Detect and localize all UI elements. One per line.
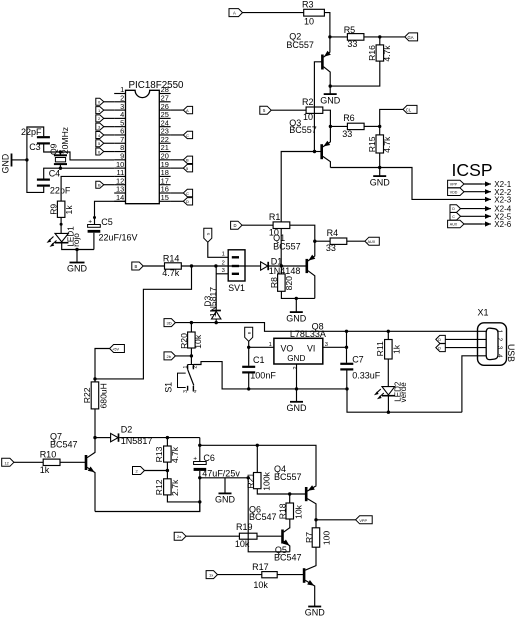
node D3 anode (215, 321, 218, 324)
node LED2 ground (387, 411, 390, 414)
resistor R16 (4.7k) (367, 37, 392, 62)
wire Q3 base left and down to R1 (281, 152, 322, 222)
wire node to R6 (330, 125, 347, 127)
wire R7 bottom to Q5 collector (305, 547, 316, 570)
connector X1 USB (478, 307, 516, 365)
PIC pin 6 stub (114, 127, 125, 136)
capacitor C3 22pF (21, 127, 50, 152)
PIC pin 4 stub (114, 110, 125, 119)
wire R2 to Q3 emitter node (323, 110, 331, 126)
svg-text:USB: USB (506, 344, 516, 362)
ground below R8 (286, 298, 307, 323)
svg-text:BC557: BC557 (273, 241, 301, 251)
PIC pin 18 stub (159, 168, 170, 177)
svg-text:X2-3: X2-3 (494, 196, 511, 205)
PIC pin 13 stub (114, 185, 125, 194)
connector B (R14 input) (132, 262, 143, 270)
svg-text:D: D (438, 346, 441, 350)
svg-text:R16: R16 (367, 45, 377, 61)
svg-text:VPP: VPP (450, 183, 458, 187)
node D3 branch (214, 264, 217, 267)
svg-text:GA: GA (408, 35, 414, 40)
svg-text:33: 33 (326, 243, 336, 253)
svg-text:D: D (452, 207, 455, 211)
svg-text:R2: R2 (302, 97, 314, 107)
svg-text:A: A (186, 108, 189, 113)
resistor R20 (10k) (179, 323, 203, 349)
ICSP pin X2-1 (448, 180, 512, 189)
svg-text:2.7k: 2.7k (170, 479, 180, 496)
svg-text:SV1: SV1 (228, 283, 245, 293)
svg-text:12: 12 (5, 461, 9, 465)
diode D2 1N5817 (95, 424, 152, 445)
svg-text:10: 10 (303, 112, 313, 122)
PIC pin 10 stub (114, 160, 125, 169)
wire ground branch (200, 477, 248, 479)
svg-text:R11: R11 (375, 341, 385, 356)
wire R9 to LED1 (60, 217, 63, 233)
svg-text:C: C (186, 191, 189, 196)
resistor R13 (4.7k) (154, 438, 180, 464)
PIC pin 15 stub (159, 193, 170, 202)
svg-text:22pF: 22pF (50, 186, 71, 196)
wire to R10 (14, 461, 43, 463)
PIC pin 1 stub (114, 85, 125, 94)
ground left of crystal (0, 154, 27, 174)
resistor R10 (1k) (40, 449, 60, 475)
svg-text:3: 3 (183, 390, 189, 393)
wire C5 bottom to LED1 ground line (93, 233, 95, 250)
svg-text:R20: R20 (179, 333, 189, 349)
crystal Q9 20MHz (49, 127, 70, 168)
connector at PIC pin 7 (96, 140, 114, 147)
resistor R4 (33) (326, 228, 347, 253)
wire C1 bottom to ground line (248, 374, 250, 389)
wire R1 bottom stub to Q1 base node (280, 229, 282, 267)
svg-text:4: 4 (192, 390, 198, 393)
PIC pin 16 stub (159, 185, 170, 194)
node GND rail (25, 158, 28, 161)
inductor R22 680uH (82, 379, 109, 409)
svg-text:ICSP: ICSP (452, 160, 493, 180)
wire R22 bottom to D2 node (94, 409, 96, 438)
connector at PIC pin 19 (171, 164, 193, 171)
svg-text:VI: VI (307, 343, 315, 353)
connector at PIC pin 16 (171, 189, 193, 196)
svg-text:4.7k: 4.7k (162, 268, 180, 278)
LED D LED1 rojo (48, 226, 81, 247)
svg-text:1: 1 (183, 365, 189, 368)
svg-text:4: 4 (496, 354, 503, 358)
svg-text:1k: 1k (64, 205, 74, 215)
svg-text:R4: R4 (327, 228, 339, 238)
voltage regulator Q8 L78L33A (269, 321, 328, 369)
resistor R15 (4.7k) (367, 126, 392, 153)
resistor R18 (10k) (278, 494, 304, 519)
svg-text:CL: CL (406, 107, 412, 112)
wire to Q4 emitter (200, 445, 316, 485)
wire R11 to LED2 (387, 359, 389, 387)
wire node down to +5V rail chain (95, 266, 192, 379)
wire C7 bottom to grounds (346, 371, 348, 389)
wire VI node up to +5V rail (346, 331, 348, 347)
svg-text:R14: R14 (163, 253, 180, 263)
connector at PIC pin 2 (96, 98, 114, 105)
diode D3 1N5817 (202, 287, 221, 323)
svg-text:1k: 1k (391, 344, 401, 354)
wire R4 to AUX (347, 240, 365, 242)
resistor R17 (10k) (252, 562, 277, 590)
wire S1 pin2 to ground line (193, 362, 249, 389)
svg-text:1: 1 (496, 330, 503, 334)
connector GA (405, 33, 418, 41)
wire node to R5 (330, 36, 348, 38)
node pin2 ground line (295, 387, 298, 390)
connector VPP (356, 516, 373, 524)
connector at PIC pin 5 (96, 123, 114, 130)
wire input to R3 (243, 12, 304, 14)
wire D1 to Q1 base (269, 265, 307, 267)
svg-text:R6: R6 (343, 113, 355, 123)
svg-text:1N5817: 1N5817 (208, 287, 218, 317)
PIC pin 9 stub (114, 152, 125, 161)
node C1 ground (247, 387, 250, 390)
connector 1 (Q7 base input) (2, 458, 14, 466)
svg-text:14: 14 (116, 193, 124, 202)
ICSP pin X2-2 (448, 188, 512, 197)
node R20 bottom (190, 354, 193, 357)
svg-text:10: 10 (304, 17, 314, 27)
wire pin14 to C5 (93, 201, 126, 224)
resistor R19 (10k) (235, 522, 257, 549)
connector at PIC pin 12 (96, 181, 114, 188)
wire ground rail (C3 top to C4 bottom) (27, 127, 44, 192)
svg-text:100nF: 100nF (250, 371, 276, 381)
transistor Q3 BC557 (289, 118, 330, 168)
svg-text:C3: C3 (29, 142, 41, 152)
node R2/R6/Q3 emitter (329, 125, 332, 128)
wire SV1 pin 3 lead (216, 273, 228, 275)
svg-text:S1: S1 (163, 382, 173, 393)
svg-text:10k: 10k (193, 334, 203, 349)
PIC pin 5 stub (114, 118, 125, 127)
svg-text:B: B (247, 331, 252, 334)
PIC pin 19 stub (159, 160, 170, 169)
PIC pin 28 stub (159, 85, 170, 94)
svg-text:4.7k: 4.7k (170, 446, 180, 463)
node R13 top (166, 436, 169, 439)
PIC pin 22 stub (159, 135, 170, 144)
svg-text:R19: R19 (236, 522, 253, 532)
connector D- (436, 335, 446, 343)
wire R10 to Q7 base (60, 461, 86, 463)
svg-text:verde: verde (399, 382, 408, 403)
svg-text:R9: R9 (48, 204, 58, 215)
svg-text:C1: C1 (253, 355, 265, 365)
node R11 top (387, 330, 390, 333)
wire D+ to USB pin3 (445, 347, 486, 349)
resistor R9 (1k) (48, 201, 74, 217)
transistor Q1 BC557 (273, 233, 315, 298)
svg-text:20MHz: 20MHz (60, 127, 70, 154)
svg-text:3: 3 (496, 346, 503, 350)
svg-text:33: 33 (347, 39, 357, 49)
svg-text:A: A (233, 11, 236, 16)
svg-text:10k: 10k (235, 539, 250, 549)
connector at PIC pin 4 (96, 115, 114, 122)
PIC pin 23 stub (159, 127, 170, 136)
svg-text:2: 2 (496, 338, 503, 342)
node R22 top (93, 377, 96, 380)
svg-text:10k: 10k (294, 504, 304, 519)
svg-text:rojo: rojo (72, 233, 81, 247)
wire R3 to node (324, 13, 330, 37)
resistor R8 (820) (269, 266, 294, 291)
svg-text:10k: 10k (253, 580, 268, 590)
svg-text:R7: R7 (304, 532, 314, 543)
wire node to CL connector (380, 109, 403, 126)
svg-text:GND: GND (320, 95, 341, 105)
ground below Q5 (305, 607, 326, 618)
wire node to R4 (315, 240, 330, 242)
node VI (345, 346, 348, 349)
wire to R17 (218, 574, 262, 576)
svg-text:R17: R17 (252, 562, 269, 572)
wire R8 bottom to Q1 collector (281, 291, 314, 298)
svg-text:2x: 2x (177, 534, 181, 539)
svg-text:22pF: 22pF (21, 127, 42, 137)
svg-text:1k: 1k (40, 465, 50, 475)
transistor Q4 BC557 (274, 464, 316, 520)
svg-text:BC557: BC557 (286, 40, 314, 50)
wire R6 to node (364, 125, 380, 127)
wire LED2 to ground return (387, 396, 389, 413)
connector at PIC pin 6 (96, 131, 114, 138)
svg-text:GND: GND (287, 403, 308, 413)
svg-text:AUX: AUX (450, 223, 458, 227)
wire node to VPP connector (316, 519, 356, 521)
node R6/R15/CL (378, 125, 381, 128)
connector 5 (260, 106, 271, 114)
node R14 output (190, 264, 193, 267)
svg-text:GND: GND (286, 313, 307, 323)
ground below regulator (287, 402, 308, 413)
ICSP pin X2-3 (482, 196, 512, 205)
connector at PIC pin 3 (96, 107, 114, 114)
svg-text:100: 100 (322, 531, 332, 546)
wire Q2 base down through R2 to Q3 base (314, 62, 322, 152)
node crystal bottom (59, 167, 62, 170)
wire C4 top / crystal bottom to pin10 (44, 168, 115, 178)
connector 2x (R19 input) (174, 532, 186, 540)
node rail/VI (345, 330, 348, 333)
svg-text:22uF/16V: 22uF/16V (99, 233, 138, 243)
resistor R12 (2.7k) (154, 479, 180, 496)
wire to R1 (242, 224, 273, 226)
svg-text:X2-6: X2-6 (494, 220, 511, 229)
node R15/ICSP rail (378, 166, 381, 169)
connector 2 (divider tap) (133, 467, 145, 475)
resistor R1 (10) (269, 212, 290, 237)
svg-text:1: 1 (222, 252, 225, 258)
svg-text:R5: R5 (344, 25, 356, 35)
svg-text:R15: R15 (367, 136, 377, 152)
PIC pin 25 stub (159, 110, 170, 119)
LED D LED2 verde (375, 381, 408, 402)
PIC pin 17 stub (159, 176, 170, 185)
svg-text:BC547: BC547 (249, 512, 277, 522)
capacitor C5 22uF/16V (88, 217, 138, 242)
resistor R11 (1k) (375, 331, 401, 359)
wire R18 bottom to Q6 collector (289, 519, 291, 528)
node C6 top / R21 feed (198, 444, 201, 447)
wire regulator pin2 to ground (296, 364, 298, 402)
wire connector to SV1 pin 1 (208, 242, 228, 257)
svg-text:2: 2 (293, 366, 299, 369)
connector at PIC pin 26 (171, 106, 193, 113)
ground below R15 (370, 168, 391, 188)
svg-text:D: D (186, 199, 189, 204)
svg-text:L78L33A: L78L33A (290, 329, 326, 339)
svg-text:R10: R10 (40, 449, 57, 459)
diode D1 1N4148 (261, 257, 301, 276)
wire R1 to R4/Q1 emitter (290, 225, 315, 241)
node pin1/C1 (247, 346, 250, 349)
ICSP pin X2-5 (450, 212, 512, 221)
PIC pin 20 stub (159, 152, 170, 161)
wire R21 bottom to Q4 base (257, 489, 306, 494)
svg-text:D: D (234, 223, 237, 228)
transistor Q7 BC547 (50, 431, 95, 511)
resistor R6 (33) (342, 113, 364, 139)
svg-text:D2: D2 (121, 424, 133, 434)
node Q3 base / R2 feed (313, 150, 316, 153)
node Q2 collector / R16 / GND (329, 84, 332, 87)
node C6/ground branch (198, 476, 201, 479)
svg-text:15: 15 (161, 193, 169, 202)
connector D (R1 input) (231, 221, 242, 229)
svg-text:2b: 2b (167, 354, 172, 359)
svg-text:VDD: VDD (450, 190, 458, 194)
node R13/R12 divider (166, 462, 169, 479)
connector 1x (R17 input) (206, 571, 217, 579)
node C6/R12/Q7 (198, 500, 201, 503)
wire USB pin4 to ground return (462, 356, 486, 412)
connector D5 (rail left) (164, 319, 175, 327)
wire connector to R2 (271, 109, 306, 111)
node R22/D2/Q7 collector (93, 436, 96, 439)
ICSP pin X2-4 (450, 205, 512, 214)
wire down to USB ground return (347, 389, 462, 412)
node R3/R5/Q2 emitter (328, 35, 331, 38)
wire R15 bottom to ground rail (379, 153, 381, 168)
ground below Q2 (320, 86, 341, 105)
svg-text:R13: R13 (154, 446, 164, 462)
svg-text:AUX: AUX (368, 240, 376, 244)
node R8/ground (295, 297, 298, 300)
resistor R3 (10) (302, 0, 324, 27)
wire regulator pin3 (323, 346, 347, 348)
svg-text:33: 33 (342, 129, 352, 139)
wire connector to divider (145, 470, 168, 472)
svg-text:C: C (452, 215, 455, 219)
connector B vertical (SV1 pin1) (204, 228, 212, 242)
connector A (top input) (229, 9, 243, 17)
connector AUX (365, 237, 379, 245)
svg-text:10: 10 (269, 228, 279, 238)
svg-text:C5: C5 (101, 217, 113, 227)
resistor R14 (4.7k) (162, 253, 181, 278)
ground below LED1 (67, 250, 88, 274)
wire +5V to R22 top (95, 349, 110, 379)
PIC pin 24 stub (159, 118, 170, 127)
svg-text:PIC18F2550: PIC18F2550 (129, 80, 185, 91)
svg-text:R12: R12 (154, 479, 164, 495)
svg-text:R21: R21 (246, 473, 256, 489)
connector at PIC pin 8 (96, 148, 114, 155)
wire Q7 emitter ground run (95, 502, 200, 512)
svg-text:D: D (438, 338, 441, 342)
connector +5V (110, 345, 125, 353)
node C7 ground corner (345, 387, 348, 390)
node R18 top (288, 492, 291, 495)
resistor R21 (100k) (246, 445, 272, 490)
svg-text:3D: 3D (167, 321, 172, 326)
resistor R5 (33) (344, 25, 364, 49)
connector at PIC pin 23 (171, 131, 193, 138)
svg-text:X1: X1 (478, 307, 489, 317)
transistor Q5 BC547 (274, 545, 315, 606)
svg-text:47uF/25v: 47uF/25v (202, 468, 240, 478)
wire ground line C1 to C7 (250, 388, 348, 390)
svg-text:C6: C6 (203, 453, 215, 463)
node LED1 ground (75, 248, 78, 251)
connector B vertical (regulator out) (245, 327, 253, 341)
svg-text:0.33uF: 0.33uF (352, 371, 381, 381)
node Q6 emitter rail (247, 476, 250, 479)
wire to R19 (186, 535, 239, 537)
connector at PIC pin 20 (171, 156, 193, 163)
switch S1 (163, 365, 198, 393)
svg-text:+5V: +5V (112, 348, 119, 352)
svg-text:1x: 1x (209, 573, 213, 578)
svg-text:820: 820 (284, 276, 294, 291)
wire LED1 to ground (62, 243, 94, 250)
svg-text:VO: VO (281, 343, 294, 353)
node R4 branch (313, 240, 316, 243)
capacitor C1 100nF (242, 347, 276, 380)
PIC pin 26 stub (159, 102, 170, 111)
node Q4 collector / VPP / R7 (314, 518, 317, 521)
node D1/R8/Q1 base (280, 264, 283, 267)
resistor R7 (100) (304, 520, 332, 547)
PIC pin 11 stub (114, 168, 125, 177)
wire R12 bottom to C6 node (167, 495, 199, 502)
svg-text:BC557: BC557 (289, 125, 317, 135)
svg-text:2: 2 (222, 260, 225, 266)
node crystal top (59, 150, 62, 153)
svg-text:BC547: BC547 (274, 553, 302, 563)
svg-text:3: 3 (222, 268, 225, 274)
svg-text:C: C (186, 133, 189, 138)
svg-text:BC547: BC547 (50, 439, 78, 449)
wire pin11 to R9 (61, 176, 114, 201)
wire R16 bottom to Q2 collector node (330, 61, 380, 86)
wire R14 to SV1/D1/Q1 (181, 265, 260, 267)
wire rail to regulator output (175, 323, 486, 332)
svg-text:VPP: VPP (359, 519, 367, 523)
svg-text:BC557: BC557 (274, 472, 302, 482)
